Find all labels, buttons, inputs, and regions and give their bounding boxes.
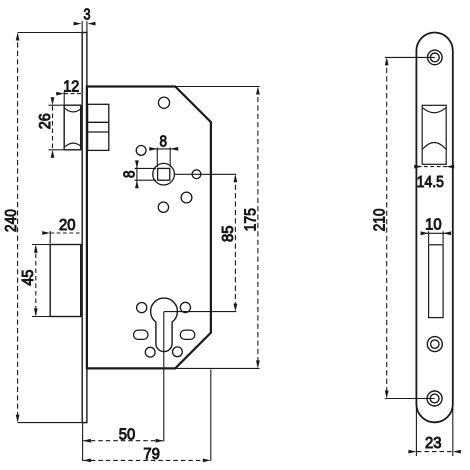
bottom screw hole xyxy=(427,391,442,406)
dimension 20 (deadbolt throw) xyxy=(50,232,82,234)
dimension 85 (spindle to cylinder centres) xyxy=(175,173,237,175)
svg-text:45: 45 xyxy=(20,270,37,286)
svg-text:79: 79 xyxy=(143,446,160,463)
latch cutout in front plate xyxy=(422,105,446,164)
svg-text:23: 23 xyxy=(425,435,442,452)
dimension 175 (body height) xyxy=(176,86,260,88)
oval left of cylinder xyxy=(134,330,149,339)
dimension 45 (deadbolt height) xyxy=(32,244,50,246)
spindle follower circle xyxy=(153,163,175,185)
faceplate side view (left drawing) xyxy=(82,33,87,423)
extension line right edge of body down xyxy=(210,370,212,462)
hole lower-left of cylinder xyxy=(145,347,155,357)
svg-text:10: 10 xyxy=(425,216,442,233)
dimension 50 (backset) xyxy=(83,440,163,442)
svg-text:210: 210 xyxy=(372,208,389,231)
svg-text:240: 240 xyxy=(3,209,20,232)
svg-text:26: 26 xyxy=(37,113,54,129)
deadbolt xyxy=(50,245,80,317)
dimension 79 (body depth) xyxy=(83,459,210,461)
dimension 240 (faceplate height) xyxy=(18,32,83,34)
hole below spindle xyxy=(158,202,168,212)
svg-text:175: 175 xyxy=(243,208,260,231)
dimension 14.5 (latch cutout width) xyxy=(418,166,452,168)
hole lower-right of cylinder xyxy=(173,347,183,357)
dimension 12 (latch projection) xyxy=(64,93,82,95)
hole right of spindle xyxy=(192,170,201,179)
hole below right xyxy=(181,192,192,203)
euro cylinder hole xyxy=(151,298,178,352)
spindle square 8x8 xyxy=(158,168,170,180)
hole left of spindle xyxy=(136,146,146,156)
dimension 8 vertical (spindle square height) xyxy=(136,160,138,188)
lock body outline xyxy=(87,87,211,369)
svg-text:8: 8 xyxy=(122,170,139,178)
hole upper-right of cylinder xyxy=(180,302,190,312)
dimension 3 (faceplate thickness) xyxy=(82,21,87,32)
svg-text:3: 3 xyxy=(84,7,91,24)
hole upper-left of cylinder xyxy=(137,303,147,313)
latch bolt head xyxy=(64,105,81,150)
oval right of cylinder xyxy=(180,330,195,339)
svg-text:8: 8 xyxy=(159,134,167,151)
middle screw hole xyxy=(427,337,442,352)
svg-text:12: 12 xyxy=(63,78,79,95)
svg-text:50: 50 xyxy=(119,426,136,443)
dimension 10 (deadbolt cutout width) xyxy=(421,232,451,234)
dimension 210 (screw hole spacing) xyxy=(385,56,435,58)
dimension 23 (plate width) xyxy=(415,405,417,456)
dimension 26 (latch height) xyxy=(49,104,65,106)
svg-text:14.5: 14.5 xyxy=(417,174,444,191)
latch housing inside body xyxy=(88,104,109,150)
svg-text:85: 85 xyxy=(220,225,237,242)
deadbolt cutout in front plate xyxy=(429,245,444,318)
dimension 8 horizontal (spindle square width) xyxy=(149,148,178,150)
hole top of body xyxy=(158,97,169,108)
strike faceplate front view (right drawing) xyxy=(416,33,452,423)
svg-text:20: 20 xyxy=(59,217,76,234)
top screw hole xyxy=(428,50,443,65)
cylinder vertical centreline / extension for 50 xyxy=(163,312,165,442)
extension line below faceplate xyxy=(82,423,84,461)
